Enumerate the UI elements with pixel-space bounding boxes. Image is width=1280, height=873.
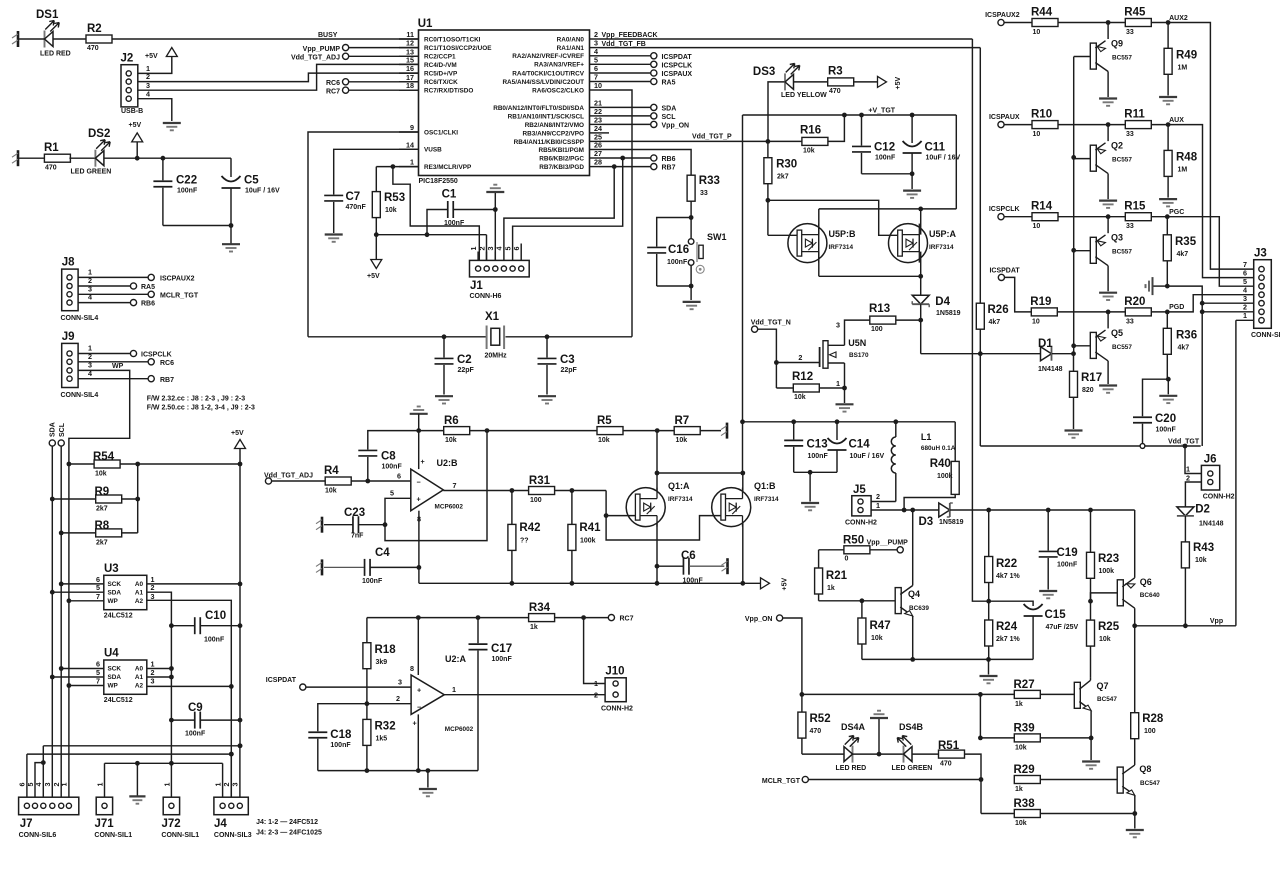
svg-text:R9: R9 [95,486,110,498]
wire Vpp to J3 pin1 [1235,320,1237,626]
node SCL [600,113,677,121]
svg-text:Vdd_TGT_ADJ: Vdd_TGT_ADJ [264,473,313,480]
svg-text:100k: 100k [937,473,953,480]
svg-text:1k: 1k [530,624,538,631]
ground [1159,379,1177,403]
resistor R22 [985,510,1021,620]
wire U5P:A source [920,252,922,277]
svg-text:Vpp__PUMP: Vpp__PUMP [867,539,909,546]
svg-text:10k: 10k [871,635,883,642]
wire net Vdd_TGT_P [600,133,802,143]
wire Q5 emitter [1107,312,1109,329]
wire +5V column lower [238,584,243,748]
svg-text:470: 470 [940,761,952,768]
resistor R53 [372,167,405,235]
wire J2 pin4 to ground [138,99,172,121]
wire net Vpp_FEEDBACK [600,32,973,39]
svg-text:4k7: 4k7 [1178,345,1190,352]
svg-text:U2:A: U2:A [445,654,467,664]
resistor R15 [1124,201,1151,231]
wire gate drive [604,491,721,541]
wire [794,81,828,83]
wire [53,38,86,40]
connector J4 CONN-SIL3 [213,783,251,840]
wire crystal left [308,334,487,339]
ground (sideways) [1146,277,1153,295]
wire D3 out [950,508,991,513]
capacitor C12 [852,115,896,174]
svg-text:C4: C4 [375,547,390,559]
wire divider tap [989,601,1033,606]
svg-text:470: 470 [829,88,841,95]
svg-text:Vdd_TGT: Vdd_TGT [1168,438,1200,445]
ground [683,302,701,309]
svg-text:ICSPCLK: ICSPCLK [141,352,172,359]
svg-text:100nF: 100nF [1156,427,1177,434]
svg-text:+: + [417,686,421,695]
junctions WP bus [67,462,72,688]
wire [623,428,674,433]
svg-text:U3: U3 [104,563,119,575]
svg-text:A2: A2 [135,683,144,690]
svg-text:R15: R15 [1124,201,1146,213]
svg-text:C5: C5 [244,175,259,187]
svg-text:+: + [417,495,421,504]
transistor Q8 BC547 [1117,764,1160,797]
svg-text:18: 18 [406,81,414,90]
wire J2 pin1 to +5V [138,57,172,74]
wire J6 pin2 to D2 [1185,474,1201,507]
svg-text:A1: A1 [135,589,144,596]
svg-text:J8: J8 [62,257,75,269]
svg-text:RB7: RB7 [662,165,676,172]
node Vdd_TGT_N [751,320,791,365]
capacitor C20 [1133,413,1176,444]
ground [980,659,998,683]
svg-text:LED YELLOW: LED YELLOW [781,92,827,99]
svg-text:28: 28 [594,158,602,167]
wire U5P:A drain [920,209,922,235]
svg-text:U5N: U5N [848,338,866,348]
capacitor C7 [324,191,366,233]
svg-text:J9: J9 [62,331,75,343]
resistor R36 [1163,312,1197,382]
wire bottom rail [318,768,478,773]
resistor R27 [1014,679,1041,708]
svg-text:4: 4 [495,247,504,251]
ground [419,771,437,797]
svg-text:10k: 10k [445,437,457,444]
svg-text:RA3/AN3/VREF+: RA3/AN3/VREF+ [534,62,584,69]
svg-text:R32: R32 [375,721,396,733]
svg-text:U2:B: U2:B [437,458,459,468]
ground (inverted) [870,711,888,754]
svg-text:1k5: 1k5 [376,736,388,743]
svg-text:MCP6002: MCP6002 [445,726,474,733]
svg-text:PGD: PGD [1169,304,1184,311]
wire to J3 pin3 [1202,302,1254,304]
resistor R6 [444,415,470,444]
wire J8 pin1 ISCPAUX2 [78,268,194,283]
wire U5P:B drain [818,209,820,235]
node ICSPAUX [600,70,693,78]
svg-text:AUX2: AUX2 [1169,15,1188,22]
svg-text:LED RED: LED RED [836,765,867,772]
wire to D4 [920,276,922,295]
wire Q1:A source [655,523,660,586]
svg-text:R29: R29 [1014,764,1035,776]
resistor R24 [985,620,1021,659]
svg-text:22pF: 22pF [458,367,475,374]
svg-text:RA5/AN4/SS/LVDIN/C2OUT: RA5/AN4/SS/LVDIN/C2OUT [502,79,584,86]
wire Vdd_TGT_P to DS3 [768,82,785,141]
svg-text:U5P:B: U5P:B [829,229,857,239]
svg-text:1N4148: 1N4148 [1199,521,1224,528]
svg-text:R14: R14 [1031,201,1053,213]
power +5V arrow [129,122,143,158]
svg-text:A1: A1 [135,674,144,681]
svg-text:J71: J71 [95,818,115,830]
svg-text:BC557: BC557 [1112,55,1132,62]
ground [1099,361,1117,393]
wire U4 A2 [147,685,232,687]
power +5V arrow [145,48,177,61]
resistor R12 [792,371,819,401]
wire [69,157,95,159]
node ICSPAUX [989,114,1032,128]
svg-text:VUSB: VUSB [424,147,442,154]
wire [1040,813,1135,815]
ground [903,191,921,198]
resistor R32 [363,704,396,771]
node ICSPAUX2 [985,12,1032,26]
wire net +V_TGT [743,108,957,118]
svg-text:10uF / 16V: 10uF / 16V [926,155,961,162]
svg-text:R28: R28 [1142,713,1164,725]
capacitor C18 [308,729,352,771]
svg-text:2k7: 2k7 [777,174,789,181]
diode D3 [919,503,964,528]
ground [538,396,556,403]
wire rail3 [105,761,223,766]
wire J1 pin5 PGC [513,156,626,261]
wire MCLR [376,164,418,169]
svg-text:D1: D1 [1038,338,1053,350]
wire U2:B output [443,481,528,493]
svg-text:LED GREEN: LED GREEN [892,765,933,772]
wire to U2:B pin6 [351,471,411,483]
svg-text:X1: X1 [485,311,500,323]
svg-text:RC5/D+/VP: RC5/D+/VP [424,71,458,78]
svg-text:CONN-SIL4: CONN-SIL4 [61,392,99,399]
svg-text:Vpp_ON: Vpp_ON [662,122,690,129]
svg-text:RB6/KBI2/PGC: RB6/KBI2/PGC [539,155,584,162]
svg-text:4: 4 [34,783,43,787]
wire U3 A0 to +5V [147,582,243,587]
wire [657,284,694,300]
svg-text:WP: WP [108,598,119,605]
connector J72 CONN-SIL1 [161,783,199,840]
connector J2 USB-B [121,53,151,116]
svg-text:100nF: 100nF [444,220,465,227]
svg-text:1k: 1k [827,585,835,592]
ground [836,404,854,411]
svg-text:CONN-SIL1: CONN-SIL1 [94,832,132,839]
svg-text:LED RED: LED RED [40,51,71,58]
capacitor C16 [647,244,689,286]
resistor R34 [529,602,555,631]
resistor R28 [1131,626,1164,739]
svg-text:RB1/AN10/INT1/SCK/SCL: RB1/AN10/INT1/SCK/SCL [508,113,584,120]
resistor R4 [324,465,351,495]
capacitor C2 [435,337,475,395]
svg-text:ICSPCLK: ICSPCLK [662,62,693,69]
svg-text:R31: R31 [529,475,551,487]
svg-text:J2: J2 [121,53,134,65]
svg-text:3: 3 [151,592,155,601]
svg-text:33: 33 [700,190,708,197]
wire drain rail [655,471,746,476]
svg-text:10k: 10k [803,148,815,155]
node Vpp_PUMP [867,539,909,553]
capacitor C5 [222,158,280,244]
wire R16 to +V_TGT [828,113,847,142]
power +5V arrow right [878,76,903,89]
svg-text:U4: U4 [104,648,119,660]
node Vdd_TGT_ADJ to R4 [264,473,325,485]
resistor R43 [1181,542,1214,568]
ground (inverted) [486,185,504,192]
svg-text:10k: 10k [1099,636,1111,643]
node RA5 [600,78,676,86]
wire [920,320,922,354]
svg-text:WP: WP [108,683,119,690]
terminal TP2 [12,150,18,166]
svg-text:+: + [421,457,425,466]
svg-text:470: 470 [810,728,822,735]
MOSFET Q1:B IRF7314 [712,481,779,527]
resistor R47 [858,601,891,660]
wire [493,193,498,260]
wire to U5P:A gate [768,200,898,235]
svg-text:Vdd_TGT_ADJ: Vdd_TGT_ADJ [291,55,340,62]
svg-text:4: 4 [88,369,92,378]
capacitor C1 [427,189,495,235]
wire net Vdd_TGT rail [980,438,1200,448]
transistor Q2 BC557 [1090,141,1132,174]
svg-text:CONN-H2: CONN-H2 [845,520,877,527]
wire J8 pin4 RB6 [78,293,155,308]
wire OSC2 [600,90,633,337]
svg-text:2: 2 [1186,474,1190,483]
svg-text:C7: C7 [346,191,361,203]
svg-text:R10: R10 [1031,109,1052,121]
wire [1154,284,1170,289]
svg-text:RA1/AN1: RA1/AN1 [557,45,585,52]
note J4 options [256,819,322,837]
svg-text:Q1:A: Q1:A [668,481,690,491]
wire J7 pin5 [35,760,46,797]
svg-text:A0: A0 [135,581,144,588]
svg-text:4: 4 [88,293,92,302]
svg-text:J4: 2-3 — 24FC1025: J4: 2-3 — 24FC1025 [256,830,322,837]
svg-text:24LC512: 24LC512 [104,613,133,620]
wire [1058,122,1125,127]
svg-text:BC547: BC547 [1097,696,1117,703]
svg-text:CONN-SIL4: CONN-SIL4 [61,315,99,322]
wire base [1074,250,1091,252]
svg-text:47uF /25V: 47uF /25V [1046,624,1079,631]
wire Q6 collector [1132,608,1137,628]
svg-text:R25: R25 [1098,621,1120,633]
resistor R2 [86,23,112,52]
svg-text:R27: R27 [1014,679,1035,691]
wire J8 pin2 RA5 [78,276,155,291]
IC U4 24LC512 [96,648,155,704]
resistor R18 [363,618,396,704]
wire J8 pin3 MCLR_TGT [78,284,199,299]
svg-text:C17: C17 [491,643,512,655]
transistor Q3 BC557 [1090,233,1132,266]
wire collector [1107,174,1109,200]
svg-text:SCL: SCL [59,422,66,437]
wire Q4 emitter [910,616,915,662]
svg-text:+5V: +5V [895,77,902,90]
connector J7 CONN-SIL6 [18,783,79,840]
svg-text:4k7: 4k7 [1177,251,1189,258]
svg-text:3: 3 [231,783,240,787]
wire U4 A0 [147,668,172,670]
LED DS4A [836,722,867,772]
svg-text:F/W 2.32.cc : J8 : 2-3 , J9 :: F/W 2.32.cc : J8 : 2-3 , J9 : 2-3 [147,396,246,403]
wire [854,81,877,83]
note firmware jumpers [147,396,255,412]
svg-text:CONN-SIL3: CONN-SIL3 [214,832,252,839]
wire J4 pin3 [238,743,243,797]
svg-text:DS2: DS2 [88,128,110,140]
ground [1065,431,1083,438]
svg-text:2: 2 [396,694,400,703]
wire base [1074,158,1091,160]
svg-text:OSC1/CLKI: OSC1/CLKI [424,129,458,136]
svg-text:D4: D4 [935,296,950,308]
wire [1151,214,1169,219]
node ICSPDAT [989,268,1031,312]
svg-text:BC557: BC557 [1112,249,1132,256]
wire pullup join [135,462,140,533]
svg-text:R17: R17 [1081,372,1102,384]
node ICSPCLK [989,206,1032,220]
svg-text:10: 10 [1033,131,1041,138]
wire base bus [1071,57,1076,354]
wire J6 pin1 [1185,446,1201,474]
svg-text:20MHz: 20MHz [485,353,508,360]
svg-text:RC6: RC6 [326,80,340,87]
svg-text:RB7/KBI3/PGD: RB7/KBI3/PGD [539,164,584,171]
svg-text:D3: D3 [919,516,934,528]
svg-text:680uH 0.1A: 680uH 0.1A [921,445,956,452]
svg-text:Vdd_TGT_P: Vdd_TGT_P [692,133,732,140]
svg-text:RC7/RX/DT/SDO: RC7/RX/DT/SDO [424,88,473,95]
ground [1099,201,1117,208]
resistor R33 [687,175,720,201]
wire [1090,678,1092,680]
svg-text:470: 470 [45,165,57,172]
wire [802,753,844,755]
svg-text:AUX: AUX [1169,117,1184,124]
resistor R41 [568,491,601,584]
svg-text:Vpp_PUMP: Vpp_PUMP [303,46,341,53]
svg-text:LED GREEN: LED GREEN [71,169,112,176]
ground [1082,738,1100,769]
capacitor C15 [1024,604,1079,659]
svg-text:C10: C10 [205,610,226,622]
wire emitter [1107,23,1109,40]
wire U3 WP [69,600,104,602]
node RB6 [600,155,676,163]
svg-text:RC6/TX/CK: RC6/TX/CK [424,79,458,86]
svg-text:100nF: 100nF [362,578,383,585]
wire Vdd_TGT switch rail [743,419,956,424]
wire +V_TGT left column [740,115,745,473]
connector J10 CONN-H2 [594,666,633,713]
wire net Vpp [1135,618,1236,626]
wire [163,223,234,228]
wire net PGC to J3 pin5 [1167,209,1253,286]
svg-text:1: 1 [836,379,840,388]
svg-text:D2: D2 [1195,504,1210,516]
svg-text:6: 6 [512,247,521,251]
wire [1151,122,1170,127]
svg-text:+V_TGT: +V_TGT [868,108,895,115]
svg-text:1: 1 [594,679,598,688]
resistor R30 [764,141,797,235]
svg-text:10k: 10k [676,437,688,444]
wire [979,694,981,738]
svg-text:4k7 1%: 4k7 1% [996,573,1021,580]
ground [325,235,343,242]
svg-text:7: 7 [96,592,100,601]
wire PGD to J3 pin4 [1167,295,1253,312]
svg-text:3: 3 [836,321,840,330]
MOSFET U5P:A IRF7314 [889,224,957,263]
svg-text:CONN-H2: CONN-H2 [1203,494,1235,501]
svg-text:R13: R13 [869,303,890,315]
diode D4 [912,295,960,317]
svg-text:1: 1 [60,783,69,787]
svg-text:RB4/AN11/KBI0/CSSPP: RB4/AN11/KBI0/CSSPP [514,139,585,146]
op-amp U2:B MCP6002 [411,457,464,524]
transistor Q4 BC639 [895,586,929,619]
ground [222,244,240,251]
svg-text:ICSPCLK: ICSPCLK [989,206,1020,213]
svg-text:Q3: Q3 [1111,233,1123,243]
svg-text:Vdd_TGT_FB: Vdd_TGT_FB [602,41,646,48]
svg-text:1k: 1k [1015,786,1023,793]
wire Q8 base [1040,779,1117,781]
svg-text:R41: R41 [579,522,601,534]
LED DS4B [892,722,933,772]
wire R28 to Q8 collector [1134,739,1136,765]
resistor R17 [1070,354,1103,429]
wire R51 to MCLR net [965,754,984,813]
wire stub J1 pin3 [494,252,496,261]
resistor R16 [800,125,828,155]
svg-text:3: 3 [398,677,402,686]
MOSFET U5P:B IRF7314 [788,224,856,263]
svg-text:1: 1 [876,501,880,510]
svg-text:Q2: Q2 [1111,141,1123,151]
